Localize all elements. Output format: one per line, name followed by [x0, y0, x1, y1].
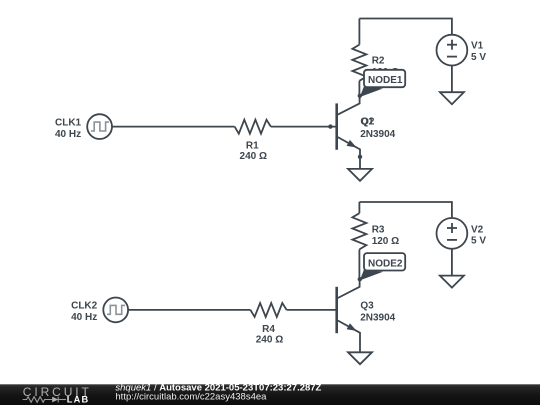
svg-text:40 Hz: 40 Hz	[55, 129, 81, 140]
svg-text:2N3904: 2N3904	[360, 312, 395, 323]
svg-text:NODE1: NODE1	[368, 75, 403, 86]
wire R1 to Q2 base	[271, 126, 337, 128]
svg-text:5 V: 5 V	[471, 52, 486, 63]
junction dot emitter	[358, 155, 362, 159]
footer bar	[0, 384, 540, 405]
svg-text:240 Ω: 240 Ω	[256, 335, 283, 346]
svg-text:240 Ω: 240 Ω	[240, 151, 267, 162]
wire CLK1 to R1	[112, 126, 235, 128]
net flag NODE1	[360, 70, 405, 97]
label V1 5 V	[471, 41, 486, 63]
resistor R1	[235, 120, 271, 134]
junction dot base node	[328, 124, 332, 128]
voltage source CLK2	[103, 298, 128, 323]
voltage source V2	[437, 218, 468, 249]
svg-text:Q3: Q3	[360, 300, 374, 311]
svg-text:V2: V2	[471, 225, 484, 236]
node dot NODE2	[358, 277, 362, 281]
ground Q3 emitter	[348, 352, 372, 364]
resistor R3	[352, 202, 366, 279]
wire R2 top to V1	[359, 19, 452, 35]
ground Q2 emitter	[348, 169, 372, 181]
wire CLK2 to R4	[128, 309, 250, 311]
svg-text:NODE2: NODE2	[368, 258, 403, 269]
svg-text:Q2: Q2	[361, 117, 375, 128]
wire V1 to ground	[451, 66, 453, 93]
wire R4 to Q3 base	[287, 309, 337, 311]
voltage source V1	[437, 35, 468, 66]
label CLK1 40 Hz	[55, 117, 82, 140]
voltage source CLK1	[87, 114, 112, 139]
node dot NODE1	[358, 94, 362, 98]
svg-text:R4: R4	[262, 324, 275, 335]
svg-text:CLK1: CLK1	[55, 117, 82, 128]
svg-text:5 V: 5 V	[471, 236, 486, 247]
svg-text:V1: V1	[471, 41, 484, 52]
label Q2 2N3904	[360, 117, 395, 140]
logo resistor zigzag and diode	[23, 397, 66, 403]
label R1 240 ohm	[240, 140, 267, 162]
svg-text:R2: R2	[372, 55, 385, 66]
svg-text:LAB: LAB	[67, 394, 89, 404]
label CLK2 40 Hz	[71, 301, 98, 324]
resistor R4	[250, 303, 286, 317]
transistor Q3	[337, 279, 360, 352]
svg-text:40 Hz: 40 Hz	[71, 312, 97, 323]
svg-text:R3: R3	[372, 225, 385, 236]
label R4 240 ohm	[256, 324, 283, 346]
label R3 120 ohm	[372, 225, 399, 248]
svg-text:120 Ω: 120 Ω	[372, 236, 399, 247]
svg-text:R1: R1	[246, 140, 259, 151]
ground V1	[440, 92, 464, 104]
svg-text:CLK2: CLK2	[71, 301, 98, 312]
label R2 and value	[372, 55, 399, 78]
label V2 5 V	[471, 225, 486, 247]
wire V2 to ground	[451, 249, 453, 276]
wire R3 top to V2	[359, 202, 452, 218]
ground V2	[440, 276, 464, 288]
svg-text:2N3904: 2N3904	[360, 129, 395, 140]
transistor Q2 (overlapped Q1+Q2)	[337, 96, 360, 169]
svg-text:http://circuitlab.com/c22asy43: http://circuitlab.com/c22asy438s4ea	[115, 392, 267, 403]
label Q3 2N3904	[360, 300, 395, 323]
resistor R2	[352, 19, 366, 96]
net flag NODE2	[360, 253, 405, 280]
